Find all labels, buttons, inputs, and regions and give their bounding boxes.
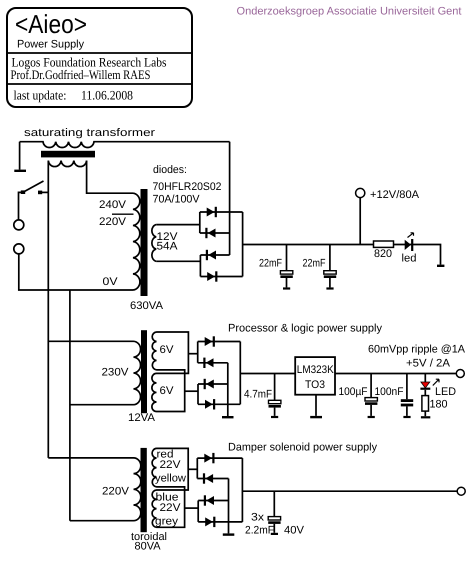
terminal circle +5V (456, 370, 464, 378)
svg-text:led: led (402, 253, 417, 265)
wire T3 yellow/grey loop join (157, 487, 185, 527)
wire bridge3 left rail upper (196, 458, 198, 478)
diode D9 (198, 399, 240, 409)
wire bridge3 upper input tap (188, 468, 197, 470)
wire bridge2 positive rail (239, 342, 241, 405)
capacitor C2 22mF (324, 245, 336, 290)
wire T3 primary top feed (48, 457, 133, 459)
svg-text:+12V/80A: +12V/80A (370, 189, 420, 201)
svg-text:60mVpp ripple @1A: 60mVpp ripple @1A (368, 344, 466, 356)
diode D1 (200, 207, 243, 217)
svg-text:Processor & logic power supply: Processor & logic power supply (228, 323, 382, 335)
svg-text:Onderzoeksgroep Associatie Uni: Onderzoeksgroep Associatie Universiteit … (237, 6, 462, 18)
svg-text:100nF: 100nF (375, 386, 404, 398)
transformer T2 secondary winding 6V lower (152, 373, 157, 411)
svg-text:<Aieo>: <Aieo> (15, 9, 87, 39)
wire regulator ground pin (315, 395, 317, 416)
capacitor C6 2.2mF bank (268, 491, 280, 535)
wire mains N down to 0V wire (19, 254, 133, 290)
wire +5V output line (335, 373, 456, 375)
diode D10 (197, 453, 242, 463)
mains terminal circle L (14, 220, 24, 230)
capacitor C5 100nF (401, 374, 413, 419)
terminal circle +12V (356, 188, 365, 197)
svg-text:40V: 40V (284, 525, 305, 537)
diode D13 (198, 517, 242, 527)
title block frame (7, 8, 192, 107)
capacitor C3 4.7mF (269, 374, 281, 419)
wire T3 red/blue loop to bridge3 upper input (157, 448, 189, 490)
wire bridge2 lower input tap (185, 390, 198, 392)
svg-text:54A: 54A (157, 241, 179, 253)
svg-text:0V: 0V (103, 276, 119, 288)
title block divider 1 (7, 52, 192, 54)
resistor 820 (374, 241, 394, 247)
svg-text:Power Supply: Power Supply (17, 39, 84, 51)
wire T1 secondary bottom to bridge (156, 260, 200, 262)
svg-text:yellow: yellow (155, 473, 186, 485)
svg-text:11.06.2008: 11.06.2008 (81, 88, 133, 103)
wire +5V raw line to regulator (240, 373, 295, 375)
diode D11 (197, 473, 228, 483)
svg-text:diodes:: diodes: (153, 164, 187, 176)
svg-text:220V: 220V (99, 216, 127, 228)
title block divider 2 (7, 83, 192, 85)
wire terminal to +12V line (359, 198, 361, 245)
wire sat secondary right end down to T1 primary top (87, 161, 133, 194)
transformer T3 secondary winding B (blue/grey) (152, 490, 156, 527)
wire T2 primary bottom feed (70, 404, 134, 406)
wire bridge2 upper input tap (188, 353, 197, 355)
capacitor C4 100uF (365, 374, 377, 419)
svg-text:saturating transformer: saturating transformer (24, 127, 155, 139)
diode D2 (200, 228, 230, 238)
diode D4 (200, 271, 242, 281)
svg-text:12VA: 12VA (128, 412, 156, 424)
transformer T2 core (141, 330, 147, 413)
wire main distribution vertical B (0V line) (69, 290, 71, 521)
diode D6 (198, 336, 241, 346)
resistor 180 (421, 390, 430, 419)
wire damper output line (242, 490, 457, 492)
svg-text:80VA: 80VA (135, 541, 162, 553)
transformer T3 primary winding (134, 458, 141, 521)
svg-text:Prof.Dr.Godfried–Willem RAES: Prof.Dr.Godfried–Willem RAES (11, 67, 151, 82)
svg-text:3x: 3x (251, 512, 265, 524)
transformer T1 core (141, 189, 148, 296)
mains terminal circle N (14, 244, 24, 254)
capacitor C1 22mF (280, 245, 292, 290)
wire switch pole down to mains terminal (19, 192, 23, 219)
wire bridge1 positive rail (242, 212, 244, 277)
saturating transformer primary winding (20, 142, 230, 148)
wire bridge1 left rail lower (199, 255, 201, 277)
transformer T3 core (141, 448, 147, 532)
diode D8 (198, 379, 228, 389)
wire T2 primary top feed (48, 340, 133, 342)
wire bridge2 negative rail to ground (227, 363, 229, 416)
svg-text:100µF: 100µF (339, 386, 368, 398)
wire bridge3 left rail lower (197, 501, 199, 522)
svg-text:240V: 240V (99, 199, 127, 211)
wire bridge1 negative rail (from sat transformer) (229, 142, 231, 255)
wire T1 secondary top to bridge (156, 224, 200, 226)
wire bridge2 left rail lower (197, 384, 199, 404)
led D5 (12V indicator) (405, 233, 414, 251)
wire bridge3 positive rail (241, 458, 243, 522)
wire sat secondary left end down to switch (47, 161, 49, 193)
wire T3 primary bottom feed (70, 520, 134, 522)
switch S1 blade (23, 181, 44, 192)
ground bar bridge2 (222, 416, 234, 418)
diode D7 (198, 358, 228, 368)
transformer T2 primary winding (134, 341, 141, 404)
ground bar regulator (310, 416, 322, 418)
svg-text:22V: 22V (160, 502, 182, 514)
terminal bar left (14, 170, 26, 172)
wire T2 sec1 top loop to bridge2 upper input (157, 332, 189, 373)
svg-text:70HFLR20S02: 70HFLR20S02 (153, 181, 222, 193)
LED indicator 5V (420, 374, 439, 390)
terminal circle damper (457, 487, 465, 495)
wire T2 sec bottom loop join (157, 370, 185, 412)
wire bridge3 lower input tap (185, 507, 199, 509)
wire switch to main vertical (41, 191, 48, 193)
svg-text:4.7mF: 4.7mF (244, 389, 272, 401)
switch S1 throw dot (38, 191, 42, 195)
wire main distribution vertical A (switch line) (47, 192, 49, 458)
svg-text:grey: grey (155, 516, 179, 528)
svg-text:LM323K: LM323K (297, 364, 335, 376)
svg-text:220V: 220V (102, 486, 130, 498)
wire bridge2 left rail upper (197, 342, 199, 363)
saturating transformer secondary winding (48, 161, 86, 167)
svg-text:22mF: 22mF (303, 258, 326, 270)
transformer T3 secondary winding A (red/yellow) (152, 448, 156, 487)
svg-text:TO3: TO3 (305, 379, 325, 391)
svg-text:22mF: 22mF (259, 258, 282, 270)
svg-text:last update:: last update: (14, 88, 67, 103)
transformer T1 secondary winding 12V (152, 225, 156, 262)
diode D3 (200, 250, 229, 260)
svg-text:6V: 6V (160, 344, 175, 356)
ground bar output right (437, 265, 444, 267)
svg-text:LED: LED (435, 386, 456, 398)
transformer T2 secondary winding 6V upper (152, 332, 156, 370)
wire 220V tap stub (112, 213, 134, 215)
svg-text:22V: 22V (160, 459, 182, 471)
svg-text:180: 180 (430, 399, 448, 411)
wire bridge1 left rail upper (199, 212, 201, 233)
svg-text:6V: 6V (160, 385, 175, 397)
wire sat-transformer left terminal stub (19, 142, 21, 170)
svg-text:630VA: 630VA (130, 300, 164, 312)
svg-text:230V: 230V (102, 367, 130, 379)
svg-text:Damper solenoid power supply: Damper solenoid power supply (228, 442, 377, 454)
wire +12V output line (243, 245, 441, 265)
saturating transformer core (41, 151, 95, 158)
switch S1 pole dot (21, 190, 25, 194)
svg-text:+5V / 2A: +5V / 2A (406, 358, 451, 370)
transformer T1 primary winding (133, 193, 140, 290)
ground bar bridge3 (223, 533, 235, 535)
regulator U1 LM323K box (295, 357, 335, 395)
svg-text:70A/100V: 70A/100V (153, 194, 201, 206)
svg-text:820: 820 (374, 248, 392, 260)
wire bridge3 negative rail to ground (228, 479, 230, 534)
svg-text:2.2mF: 2.2mF (245, 525, 274, 537)
diode D12 (198, 495, 228, 505)
